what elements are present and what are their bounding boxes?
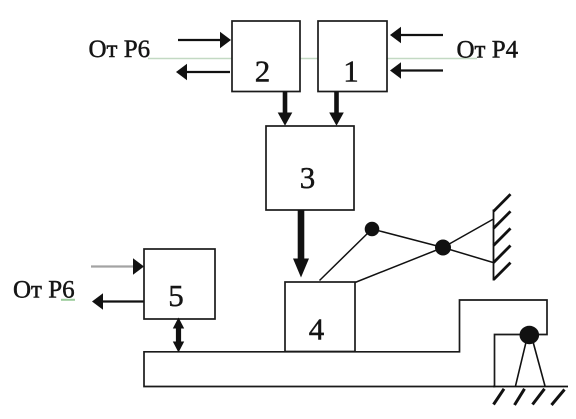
block 2 (232, 21, 300, 92)
arrow: input into block 2 (178, 32, 231, 48)
block 4 (285, 282, 355, 352)
wire: link from joint B to wall upper (443, 219, 494, 248)
wire: link from block 4 corner to joint B (355, 248, 443, 283)
svg-text:4: 4 (309, 312, 325, 347)
svg-text:2: 2 (255, 54, 271, 89)
wire: link from joint A to joint B (372, 229, 443, 248)
svg-text:5: 5 (168, 278, 184, 313)
arrow: upper input into block 1 (390, 27, 443, 43)
wire: green underline mark (61, 299, 75, 301)
arrow: output from block 5 (92, 293, 144, 309)
svg-text:3: 3 (300, 160, 316, 195)
thick arrow: block 1 to block 3 (329, 92, 344, 126)
block 1 (318, 21, 387, 92)
arrow: lower input into block 1 (390, 62, 443, 78)
thick arrow: block 3 to block 4 (293, 210, 309, 278)
arrow: input into block 5 (gray line) (91, 258, 144, 274)
svg-text:От Р4: От Р4 (457, 37, 519, 64)
wall support (top right, hatched) (494, 194, 511, 280)
thick arrow: block 2 to block 3 (278, 92, 293, 126)
block 5 (144, 249, 215, 319)
joint A (pin) (365, 222, 380, 237)
svg-text:От Р6: От Р6 (89, 36, 151, 63)
arrow: output from block 2 (176, 64, 230, 80)
pivot joint on base step (516, 326, 546, 386)
joint B (pin) (435, 240, 451, 256)
ground (hatched, bottom right) (493, 387, 568, 406)
wire: link from joint B to wall lower (443, 248, 494, 263)
wire: link from block 4 to joint A (320, 229, 373, 281)
svg-text:1: 1 (343, 54, 359, 89)
base platform (144, 300, 547, 387)
block 3 (266, 126, 354, 210)
double arrow: block 5 to base (173, 318, 184, 353)
wire: green signal line across blocks 1 and 2 (148, 58, 477, 60)
